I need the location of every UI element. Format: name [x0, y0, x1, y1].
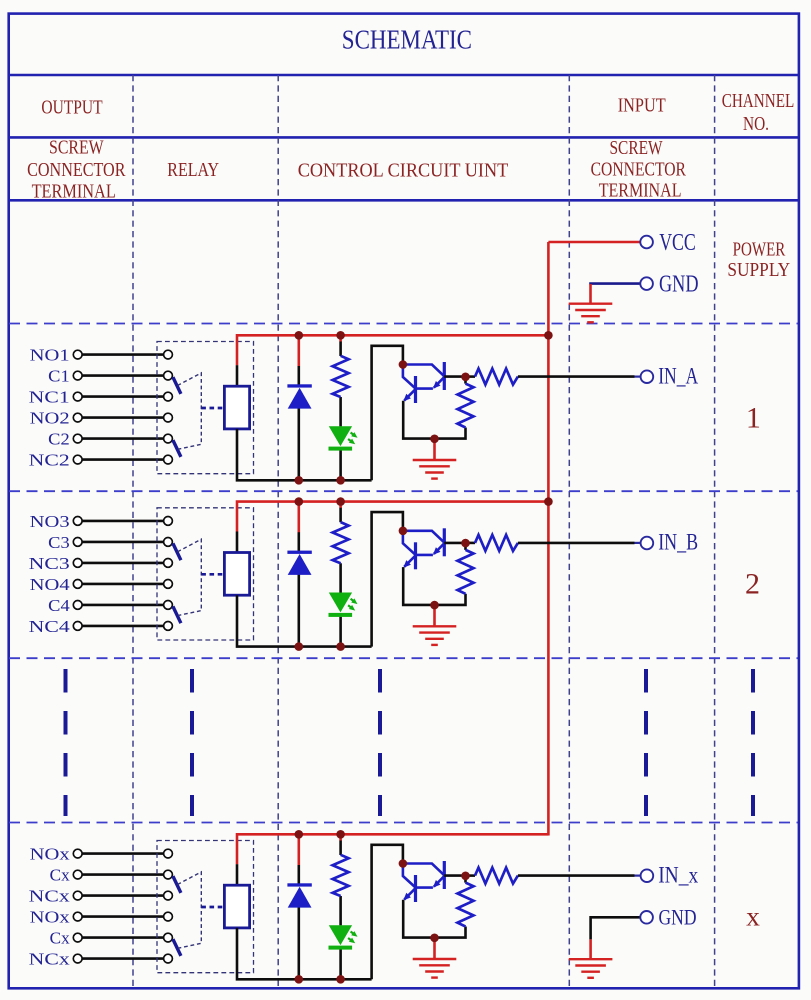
svg-text:2: 2 — [745, 568, 760, 601]
VCC rail (red, down to channel x) — [547, 242, 550, 836]
svg-text:POWER: POWER — [733, 240, 786, 261]
svg-text:NO2: NO2 — [30, 409, 70, 428]
svg-text:NOx: NOx — [30, 908, 71, 927]
header row line 3 — [8, 199, 799, 202]
continuation mark x=65.5 — [64, 669, 68, 816]
svg-text:CONNECTOR: CONNECTOR — [591, 159, 686, 180]
header row line 1 — [8, 74, 799, 77]
svg-text:NC1: NC1 — [29, 388, 70, 407]
svg-text:1: 1 — [746, 401, 761, 434]
row separator dashed y=822.5 — [9, 822, 798, 824]
svg-text:x: x — [746, 900, 760, 931]
continuation mark x=753 — [751, 669, 755, 816]
GND wire navy — [591, 282, 641, 285]
svg-text:C1: C1 — [48, 367, 70, 386]
svg-text:CONTROL CIRCUIT UINT: CONTROL CIRCUIT UINT — [298, 160, 509, 182]
svg-text:NOx: NOx — [30, 845, 71, 864]
svg-text:C3: C3 — [48, 533, 70, 552]
channel 1 circuit — [73, 331, 653, 485]
channel x GND terminal circle — [640, 911, 653, 924]
svg-text:Cx: Cx — [50, 866, 70, 885]
row separator dashed y=658.2 — [9, 657, 798, 659]
svg-text:IN_x: IN_x — [658, 862, 698, 887]
channel x GND stem red — [589, 939, 592, 959]
VCC terminal circle — [640, 236, 653, 249]
svg-text:NO1: NO1 — [30, 346, 70, 365]
svg-text:TERMINAL: TERMINAL — [32, 182, 116, 203]
rail junction dot ch2 — [544, 497, 553, 506]
GND terminal circle — [640, 277, 653, 290]
channel x GND wire — [591, 917, 641, 939]
continuation mark x=380 — [378, 669, 382, 816]
continuation mark x=646 — [644, 669, 648, 816]
svg-text:IN_A: IN_A — [658, 363, 698, 388]
svg-text:NC4: NC4 — [29, 617, 71, 636]
column separator dashed x=714.6 — [714, 75, 716, 987]
svg-text:NCx: NCx — [29, 887, 71, 906]
row separator dashed y=491.2 — [9, 490, 798, 492]
column separator dashed x=569.3 — [568, 75, 570, 987]
svg-text:CONNECTOR: CONNECTOR — [27, 160, 125, 181]
power ground symbol — [569, 304, 613, 323]
svg-text:SCREW: SCREW — [49, 137, 104, 158]
rail junction dot ch1 — [544, 331, 553, 340]
svg-text:VCC: VCC — [659, 230, 696, 256]
row separator dashed y=323.5 — [9, 323, 798, 325]
svg-text:SCREW: SCREW — [610, 138, 663, 159]
svg-text:NO4: NO4 — [30, 575, 71, 594]
svg-text:OUTPUT: OUTPUT — [41, 97, 103, 119]
svg-text:GND: GND — [659, 272, 699, 298]
svg-text:NO3: NO3 — [30, 512, 70, 531]
channel 2 circuit — [73, 497, 653, 651]
svg-text:TERMINAL: TERMINAL — [599, 181, 682, 202]
GND stem red — [589, 284, 592, 304]
svg-text:IN_B: IN_B — [658, 530, 698, 555]
svg-text:SCHEMATIC: SCHEMATIC — [342, 25, 472, 55]
continuation mark x=192 — [190, 669, 194, 816]
svg-text:RELAY: RELAY — [167, 159, 219, 181]
svg-text:GND: GND — [659, 905, 697, 930]
header row line 2 — [8, 136, 799, 139]
channel x circuit — [73, 830, 653, 984]
svg-text:CHANNEL: CHANNEL — [722, 90, 795, 112]
svg-text:NC2: NC2 — [29, 451, 70, 470]
column separator dashed x=278.2 — [277, 75, 279, 987]
svg-text:NO.: NO. — [743, 113, 769, 135]
svg-text:INPUT: INPUT — [618, 95, 666, 117]
channel x ground symbol — [569, 959, 613, 978]
svg-text:NC3: NC3 — [29, 554, 70, 573]
svg-text:SUPPLY: SUPPLY — [727, 260, 790, 281]
svg-text:NCx: NCx — [29, 950, 71, 969]
column separator dashed x=133 — [132, 75, 134, 987]
svg-text:C4: C4 — [48, 596, 70, 615]
svg-text:C2: C2 — [48, 430, 70, 449]
svg-text:Cx: Cx — [50, 929, 70, 948]
VCC wire red — [548, 241, 640, 244]
